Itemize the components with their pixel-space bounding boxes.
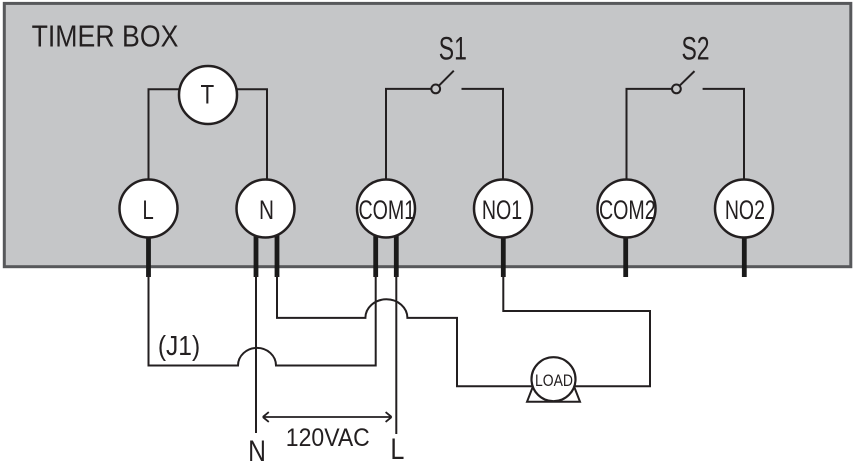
S1 blade bbox=[439, 71, 454, 86]
svg-text:TIMER BOX: TIMER BOX bbox=[32, 19, 179, 53]
svg-text:(J1): (J1) bbox=[158, 330, 200, 361]
wire N to LOAD with hump over COM1 wires bbox=[277, 275, 553, 386]
svg-text:S1: S1 bbox=[439, 31, 467, 67]
svg-text:120VAC: 120VAC bbox=[286, 425, 370, 452]
wire COM1 to S1 pole bbox=[386, 89, 431, 209]
svg-text:LOAD: LOAD bbox=[535, 371, 573, 390]
S2 blade bbox=[680, 71, 695, 86]
S1 pole contact circle bbox=[431, 85, 440, 94]
wire S2 throw to NO2 bbox=[703, 89, 744, 209]
svg-text:NO1: NO1 bbox=[482, 194, 522, 225]
svg-text:COM1: COM1 bbox=[358, 194, 415, 225]
LOAD base trapezoid bbox=[527, 385, 580, 402]
svg-text:T: T bbox=[200, 79, 214, 110]
terminal pin N right bbox=[275, 230, 280, 277]
switch S2 bbox=[627, 31, 745, 209]
terminal COM2 bbox=[598, 180, 656, 238]
wire T to L bbox=[149, 89, 209, 209]
svg-text:L: L bbox=[390, 433, 404, 466]
svg-text:N: N bbox=[259, 194, 274, 225]
LOAD device bbox=[532, 357, 576, 401]
wire L to COM1 jumper J1 with hump over N wire bbox=[149, 275, 376, 366]
terminal pin COM2 bbox=[623, 230, 628, 277]
svg-text:S2: S2 bbox=[681, 31, 709, 67]
switch S1 bbox=[386, 31, 503, 209]
terminal pin N left bbox=[254, 230, 259, 277]
terminal pin NO2 bbox=[742, 230, 747, 277]
terminal pin COM1 right bbox=[394, 230, 399, 277]
terminal pin L bbox=[146, 230, 151, 277]
wire NO1 to LOAD bbox=[503, 275, 650, 386]
terminal COM1 bbox=[357, 180, 415, 238]
terminal pin NO1 bbox=[501, 230, 506, 277]
svg-text:L: L bbox=[142, 194, 153, 225]
wire L supply lead bbox=[395, 275, 397, 434]
dimension arrow 120VAC bbox=[263, 412, 392, 422]
terminal pin COM1 left bbox=[373, 230, 378, 277]
timer box enclosure bbox=[4, 3, 851, 266]
terminal L bbox=[120, 180, 178, 238]
wire S1 throw to NO1 bbox=[462, 89, 504, 209]
svg-text:COM2: COM2 bbox=[599, 194, 656, 225]
wire COM2 to S2 pole bbox=[627, 89, 672, 209]
wire N supply lead bbox=[255, 275, 257, 433]
terminal NO1 bbox=[474, 180, 532, 238]
svg-text:N: N bbox=[248, 435, 266, 467]
wire T to N bbox=[208, 89, 267, 209]
terminal N bbox=[237, 180, 295, 238]
terminal NO2 bbox=[715, 180, 773, 238]
svg-text:NO2: NO2 bbox=[725, 194, 765, 225]
S2 pole contact circle bbox=[672, 85, 681, 94]
timer motor T bbox=[179, 66, 237, 124]
